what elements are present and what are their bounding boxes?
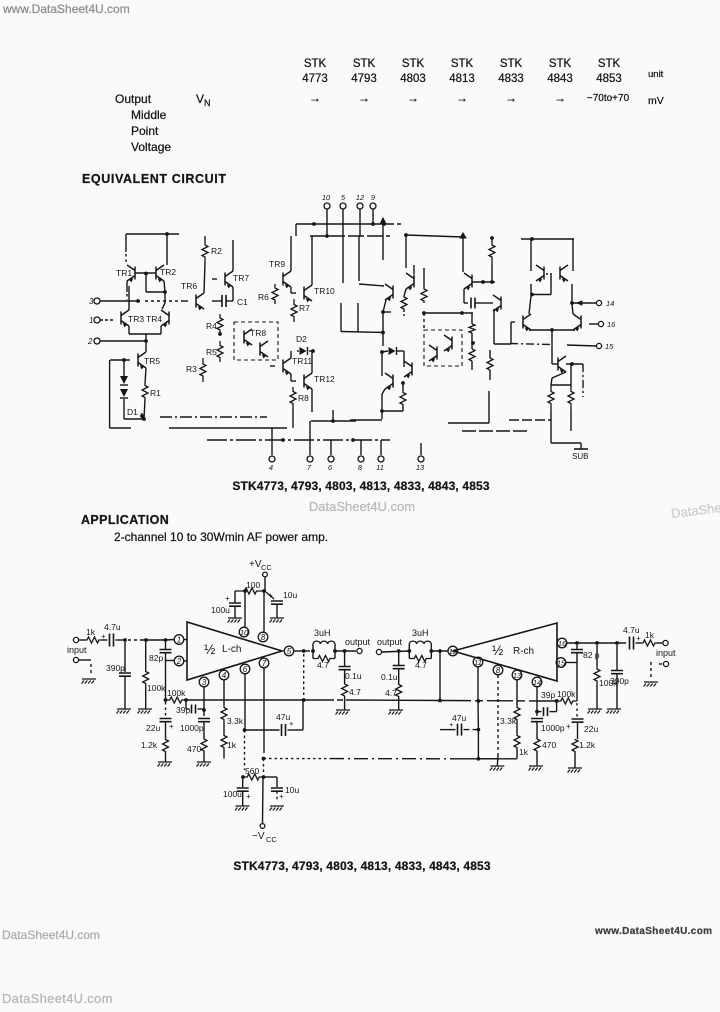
node pin2 L <box>174 656 187 666</box>
transistor mid E <box>493 295 511 344</box>
resistor mid Re <box>489 236 495 264</box>
diode D2 <box>296 334 315 355</box>
node pin3 L <box>199 677 209 687</box>
svg-text:TR4: TR4 <box>146 314 162 324</box>
node pin1 <box>89 316 113 325</box>
svg-text:3: 3 <box>202 678 207 687</box>
node pin8 bottom <box>358 440 364 472</box>
svg-text:10u: 10u <box>285 785 299 795</box>
node pin15 out <box>510 342 614 351</box>
transistor QC <box>511 296 531 344</box>
svg-text:100k: 100k <box>147 683 166 693</box>
resistor R3 <box>186 358 206 382</box>
svg-text:R1: R1 <box>150 388 161 398</box>
svg-text:4.7: 4.7 <box>349 687 361 697</box>
svg-text:R5: R5 <box>206 347 217 357</box>
svg-text:15: 15 <box>605 342 614 351</box>
svg-text:+: + <box>279 792 284 801</box>
svg-text:22u: 22u <box>584 724 598 734</box>
svg-text:100: 100 <box>246 580 260 590</box>
resistor mid Rb <box>400 381 406 411</box>
ground 100k L <box>138 709 153 714</box>
ground snubber L <box>336 710 351 715</box>
node pin15 R <box>556 658 566 668</box>
svg-text:D1: D1 <box>127 407 138 417</box>
diode D1 <box>120 358 146 421</box>
svg-text:+: + <box>566 722 571 731</box>
svg-text:1k: 1k <box>519 747 529 757</box>
capacitor 390p R <box>610 645 629 709</box>
wire mid rail <box>404 233 466 272</box>
capacitor 4.7u input L <box>101 622 125 647</box>
svg-text:0.1u: 0.1u <box>345 671 362 681</box>
power +VCC terminal <box>249 559 272 591</box>
node pin8 R <box>493 665 503 675</box>
svg-text:13: 13 <box>416 463 425 472</box>
svg-text:TR2: TR2 <box>160 267 176 277</box>
svg-text:TR8: TR8 <box>250 328 266 338</box>
wire bottom rail right <box>311 410 551 431</box>
svg-text:+: + <box>636 634 641 643</box>
transistor TR5 <box>110 341 160 384</box>
ground 1.2k R <box>568 768 583 773</box>
inductor 3uH L <box>313 628 335 659</box>
wire mid net 313 <box>422 311 473 330</box>
svg-text:3: 3 <box>89 297 94 306</box>
svg-text:+: + <box>268 591 273 600</box>
transistor TR12 <box>291 351 335 390</box>
svg-text:TR11: TR11 <box>292 356 312 366</box>
node pin14 out <box>572 299 614 308</box>
capacitor 22u L <box>146 702 174 739</box>
ground 1.2k L <box>158 762 173 767</box>
capacitor 4.7u input R <box>623 625 641 650</box>
svg-text:11: 11 <box>376 463 384 472</box>
svg-text:9: 9 <box>371 193 376 202</box>
node pin11 bottom <box>376 440 384 472</box>
svg-text:+: + <box>225 594 230 603</box>
ground 470 R <box>529 766 544 771</box>
resistor mid Rc <box>421 268 427 303</box>
capacitor 82p L <box>149 642 172 700</box>
resistor 1k input R <box>641 630 663 646</box>
node pin16 out <box>589 320 616 329</box>
svg-text:output: output <box>345 637 371 647</box>
svg-text:L-ch: L-ch <box>222 644 241 655</box>
svg-text:470: 470 <box>542 740 556 750</box>
node pin4 bottom <box>269 428 275 472</box>
svg-text:4.7: 4.7 <box>317 660 329 670</box>
resistor R7 <box>291 299 310 322</box>
svg-text:560: 560 <box>245 766 259 776</box>
resistor mid Rf2 <box>469 349 475 370</box>
svg-text:1000p: 1000p <box>541 723 565 733</box>
transistor mid D <box>404 361 412 378</box>
resistor 3.3k R <box>500 680 520 726</box>
svg-text:1.2k: 1.2k <box>141 740 158 750</box>
wire bottom rail 3 <box>207 438 390 442</box>
svg-text:6: 6 <box>328 463 333 472</box>
transistor TR7 <box>212 240 249 288</box>
capacitor 0.1u L <box>339 651 362 683</box>
transistor TR4 <box>146 310 169 327</box>
svg-text:R4: R4 <box>206 321 217 331</box>
svg-text:11: 11 <box>474 658 482 667</box>
wire bottom rail 2 <box>169 427 287 429</box>
ground 100k R <box>588 709 603 714</box>
svg-text:4.7: 4.7 <box>415 660 427 670</box>
wire vcc to pin8 <box>263 591 265 632</box>
wire top rail 1 <box>296 222 403 236</box>
wire output node L <box>294 649 315 696</box>
input terminal R <box>656 640 676 666</box>
svg-text:12: 12 <box>356 193 365 202</box>
node pin6 L <box>240 664 250 674</box>
svg-text:3.3k: 3.3k <box>500 716 517 726</box>
ground input L <box>82 679 97 684</box>
svg-text:R3: R3 <box>186 364 197 374</box>
svg-text:82p: 82p <box>149 653 163 663</box>
wire TR1 TR2 base tie <box>135 272 167 309</box>
svg-text:2: 2 <box>176 657 182 666</box>
transistor QE <box>552 330 566 373</box>
resistor 1k L <box>221 722 237 759</box>
wire pin15 R <box>566 662 577 664</box>
capacitor 47u L <box>245 700 304 736</box>
svg-text:14: 14 <box>533 678 541 687</box>
ground 470 L <box>197 762 212 767</box>
svg-text:3uH: 3uH <box>412 628 429 638</box>
svg-text:R7: R7 <box>299 303 310 313</box>
ground input R <box>644 662 659 687</box>
capacitor C1 <box>212 287 248 307</box>
svg-text:+: + <box>169 722 174 731</box>
capacitor 1000p L <box>180 719 210 739</box>
svg-text:½: ½ <box>204 642 215 657</box>
wire pin3 chain L <box>203 687 205 716</box>
node pin10 L <box>239 627 249 637</box>
svg-text:TR5: TR5 <box>144 356 160 366</box>
wire output node R <box>382 649 448 700</box>
svg-text:0.1u: 0.1u <box>381 672 398 682</box>
capacitor mid Cb <box>471 298 480 309</box>
resistor 560 L <box>243 766 264 780</box>
capacitor 1000p R <box>531 719 565 739</box>
svg-text:13: 13 <box>513 671 522 680</box>
resistor R1 <box>142 384 161 419</box>
svg-text:1: 1 <box>89 316 93 325</box>
svg-text:1k: 1k <box>86 627 96 637</box>
resistor Rf <box>548 385 571 410</box>
wire mid C emitter <box>350 394 403 420</box>
svg-text:47u: 47u <box>452 713 466 723</box>
resistor 100k vertical L <box>143 640 166 709</box>
ground SUB <box>572 443 588 461</box>
svg-text:TR1: TR1 <box>116 268 132 278</box>
wire vcc to pin10 <box>244 591 246 627</box>
svg-text:390p: 390p <box>610 676 629 686</box>
svg-text:15: 15 <box>557 659 566 668</box>
wire mid bottom spur <box>448 391 489 423</box>
op-amp U1 1/2 L-ch triangle <box>187 622 282 680</box>
resistor R4 <box>206 314 223 336</box>
svg-text:1000p: 1000p <box>180 723 204 733</box>
output terminal R <box>376 637 402 655</box>
wire mid P6 nets <box>472 264 495 303</box>
transistor mid C <box>382 352 393 394</box>
resistor 1.2k L <box>141 739 169 762</box>
resistor 4.7 snubber L <box>342 683 361 710</box>
capacitor 39p R <box>535 690 557 716</box>
resistor 3.3k L <box>221 680 244 726</box>
svg-text:TR10: TR10 <box>314 286 335 296</box>
svg-text:TR6: TR6 <box>181 281 197 291</box>
svg-text:14: 14 <box>606 299 614 308</box>
transistor mid P6 <box>464 273 472 303</box>
svg-text:D2: D2 <box>296 334 307 344</box>
svg-text:CC: CC <box>266 835 277 844</box>
capacitor 0.1u R <box>381 649 405 684</box>
node pin16 R <box>557 638 567 648</box>
wire TR3 TR4 emitters <box>129 326 161 343</box>
input terminal L <box>67 637 91 676</box>
svg-text:1: 1 <box>177 636 181 645</box>
transistor mid pair dashed box <box>424 330 462 366</box>
ground 10u top <box>270 618 285 623</box>
output terminal L <box>345 637 371 654</box>
ground 100u top <box>228 618 243 623</box>
svg-text:+: + <box>449 720 454 729</box>
resistor R8 <box>290 387 312 428</box>
svg-text:TR9: TR9 <box>269 259 285 269</box>
node pin9 top <box>370 193 376 224</box>
node pin3 <box>89 297 183 306</box>
transistor QA <box>536 265 553 282</box>
svg-text:R2: R2 <box>211 246 222 256</box>
svg-text:10: 10 <box>240 628 249 637</box>
resistor mid Rf1 <box>469 313 475 349</box>
svg-text:22u: 22u <box>146 723 160 733</box>
svg-text:4.7: 4.7 <box>385 688 397 698</box>
capacitor 47u R <box>440 713 478 736</box>
svg-text:1k: 1k <box>227 740 237 750</box>
capacitor 390p L <box>106 642 131 709</box>
transistor TR1 <box>116 265 135 300</box>
resistor 100 <box>235 580 266 594</box>
svg-text:4: 4 <box>269 463 273 472</box>
resistor 4.7 parallel R <box>409 656 431 671</box>
resistor 1.2k R <box>572 739 596 768</box>
ground snubber R <box>389 710 404 715</box>
wire lower rail <box>264 758 518 760</box>
transistor QD <box>572 304 581 331</box>
transistor QB <box>560 265 568 282</box>
resistor mid Rg <box>487 350 493 380</box>
wire pin7 chain L <box>262 668 266 779</box>
wire sub net <box>551 410 581 443</box>
transistor TR11 <box>270 351 312 375</box>
svg-text:input: input <box>67 645 87 655</box>
resistor mid Ra <box>401 296 407 316</box>
node pin13 bottom <box>416 443 425 472</box>
resistor 1k R <box>514 722 529 759</box>
transistor TR9 <box>269 236 291 288</box>
svg-text:8: 8 <box>358 463 363 472</box>
resistor 4.7 parallel L <box>313 656 335 671</box>
wire TR1 TR2 collector rail <box>126 232 179 265</box>
ground 390p L <box>117 709 132 714</box>
op-amp U2 1/2 R-ch triangle <box>453 623 557 681</box>
wire to output L <box>333 649 356 653</box>
svg-text:+: + <box>289 719 294 728</box>
ground 100u bottom L <box>235 806 250 811</box>
transistor TR10 <box>291 236 335 302</box>
transistor mid B <box>404 265 414 296</box>
resistor 4.7 snubber R <box>385 684 402 710</box>
power -VCC terminal <box>252 777 277 844</box>
wire output emitter rail <box>529 328 575 332</box>
ground 10u bottom L <box>270 806 285 811</box>
svg-text:100u: 100u <box>223 789 242 799</box>
svg-text:TR12: TR12 <box>314 374 335 384</box>
node N2 L / resistor 100k horizontal <box>164 688 188 703</box>
svg-text:3uH: 3uH <box>314 628 331 638</box>
node N2 R / resistor 100k horizontal <box>555 689 577 704</box>
svg-text:16: 16 <box>607 320 616 329</box>
transistor TR3 <box>121 286 144 327</box>
transistor TR2 <box>156 265 176 292</box>
resistor R6 <box>258 284 278 304</box>
wire mid verticals <box>359 218 386 281</box>
wire pin8 chain R <box>496 675 499 766</box>
node pin1 L <box>174 635 187 645</box>
svg-text:CC: CC <box>261 563 272 572</box>
node pin7 L <box>259 658 269 668</box>
svg-text:4: 4 <box>222 671 227 680</box>
svg-text:39p: 39p <box>176 705 190 715</box>
svg-text:10: 10 <box>322 193 331 202</box>
wire pin14 chain R <box>536 687 538 716</box>
svg-text:6: 6 <box>243 665 248 674</box>
wire cage emitters <box>530 275 574 305</box>
svg-text:R-ch: R-ch <box>513 646 534 657</box>
node pin13 R <box>512 670 522 680</box>
wire bottom rail 1 <box>160 416 267 418</box>
svg-text:2: 2 <box>87 337 93 346</box>
resistor R2 <box>202 236 222 262</box>
inductor 3uH R <box>407 628 433 659</box>
svg-text:input: input <box>656 648 676 658</box>
svg-text:+V: +V <box>249 559 262 570</box>
capacitor 82p R <box>571 645 600 701</box>
capacitor 10u bottom L <box>264 777 300 801</box>
svg-text:R6: R6 <box>258 292 269 302</box>
svg-text:39p: 39p <box>541 690 555 700</box>
wire ground spur R <box>478 759 504 771</box>
wire left bracket <box>110 360 131 428</box>
svg-text:+: + <box>246 792 251 801</box>
svg-text:5: 5 <box>341 193 346 202</box>
wire mirror cage <box>521 237 574 271</box>
capacitor 10u top <box>266 590 297 618</box>
node pin11 R <box>473 657 483 667</box>
resistor 470 R <box>534 738 556 766</box>
capacitor 100u bottom L <box>223 777 251 806</box>
wire pin11 chain R <box>477 667 481 761</box>
node pin5 top <box>340 193 346 283</box>
svg-text:SUB: SUB <box>572 452 588 461</box>
svg-text:TR7: TR7 <box>233 273 249 283</box>
node pin5 L <box>284 646 294 656</box>
wire feedback rail <box>186 698 557 702</box>
svg-text:1k: 1k <box>645 630 655 640</box>
capacitor 22u R <box>566 703 598 739</box>
svg-text:10u: 10u <box>283 590 297 600</box>
svg-text:TR3: TR3 <box>128 314 144 324</box>
resistor 470 L <box>187 738 207 762</box>
node pin8 L <box>258 632 268 642</box>
svg-text:4.7u: 4.7u <box>104 622 121 632</box>
svg-text:5: 5 <box>287 647 292 656</box>
wire misc left-bottom <box>140 413 144 419</box>
svg-text:100u: 100u <box>211 605 230 615</box>
svg-text:390p: 390p <box>106 663 125 673</box>
svg-text:R8: R8 <box>298 393 309 403</box>
wire mid bracket <box>341 303 391 346</box>
svg-text:½: ½ <box>492 643 503 658</box>
resistor 1k input L <box>79 627 101 643</box>
wire pin6 chain L <box>241 674 246 779</box>
ground 390p R <box>607 709 622 714</box>
diode mid Da <box>380 347 404 363</box>
wire top rail 2 <box>310 234 390 238</box>
svg-text:100k: 100k <box>557 689 576 699</box>
resistor R5 <box>206 341 223 362</box>
node pin2 <box>87 337 146 346</box>
svg-text:output: output <box>377 637 403 647</box>
wire input node R <box>567 641 626 645</box>
node pin4 L <box>219 670 229 680</box>
svg-text:1.2k: 1.2k <box>579 740 596 750</box>
wire QE collector <box>551 362 583 397</box>
node pin12 R <box>448 646 458 656</box>
wire pin2 L <box>166 660 175 662</box>
node pin10 top <box>322 193 331 236</box>
node pin14 R <box>532 677 542 687</box>
capacitor 39p L <box>176 700 206 715</box>
svg-text:3.3k: 3.3k <box>227 716 244 726</box>
svg-text:7: 7 <box>262 659 267 668</box>
node pin7 bottom <box>307 421 313 472</box>
resistor 100k vertical R <box>594 645 618 709</box>
svg-text:16: 16 <box>558 639 567 648</box>
resistor Rg <box>568 385 574 431</box>
wire input node L <box>123 638 174 642</box>
svg-text:100k: 100k <box>167 688 186 698</box>
svg-text:7: 7 <box>307 463 312 472</box>
transistor mid A <box>359 284 393 312</box>
svg-text:470: 470 <box>187 744 201 754</box>
svg-text:−V: −V <box>252 831 265 842</box>
svg-text:8: 8 <box>261 633 266 642</box>
transistor TR8 pair in dashed box <box>234 322 278 360</box>
node pin6 bottom <box>328 440 334 472</box>
capacitor 100u top <box>211 591 241 618</box>
svg-text:12: 12 <box>449 647 458 656</box>
svg-text:8: 8 <box>496 666 501 675</box>
node pin12 top <box>356 193 365 236</box>
svg-text:C1: C1 <box>237 297 248 307</box>
